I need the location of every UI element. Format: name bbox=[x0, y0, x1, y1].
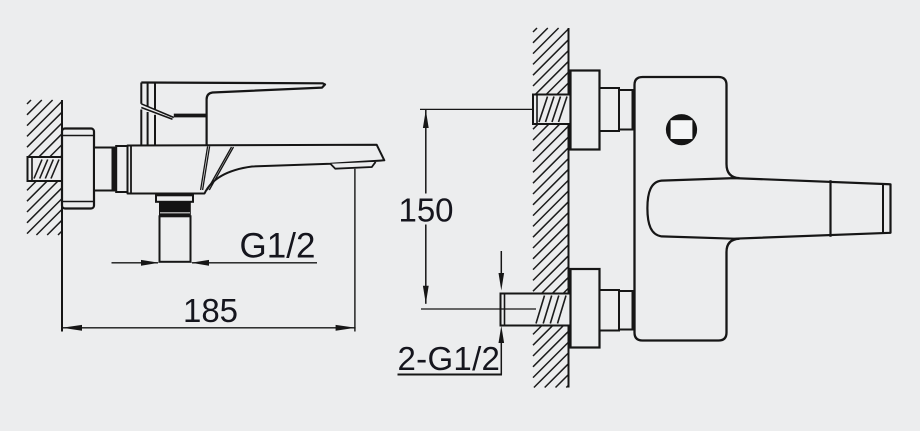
svg-text:2-G1/2: 2-G1/2 bbox=[398, 340, 501, 377]
svg-text:150: 150 bbox=[398, 191, 453, 228]
svg-text:185: 185 bbox=[183, 292, 238, 329]
svg-text:G1/2: G1/2 bbox=[240, 227, 316, 266]
